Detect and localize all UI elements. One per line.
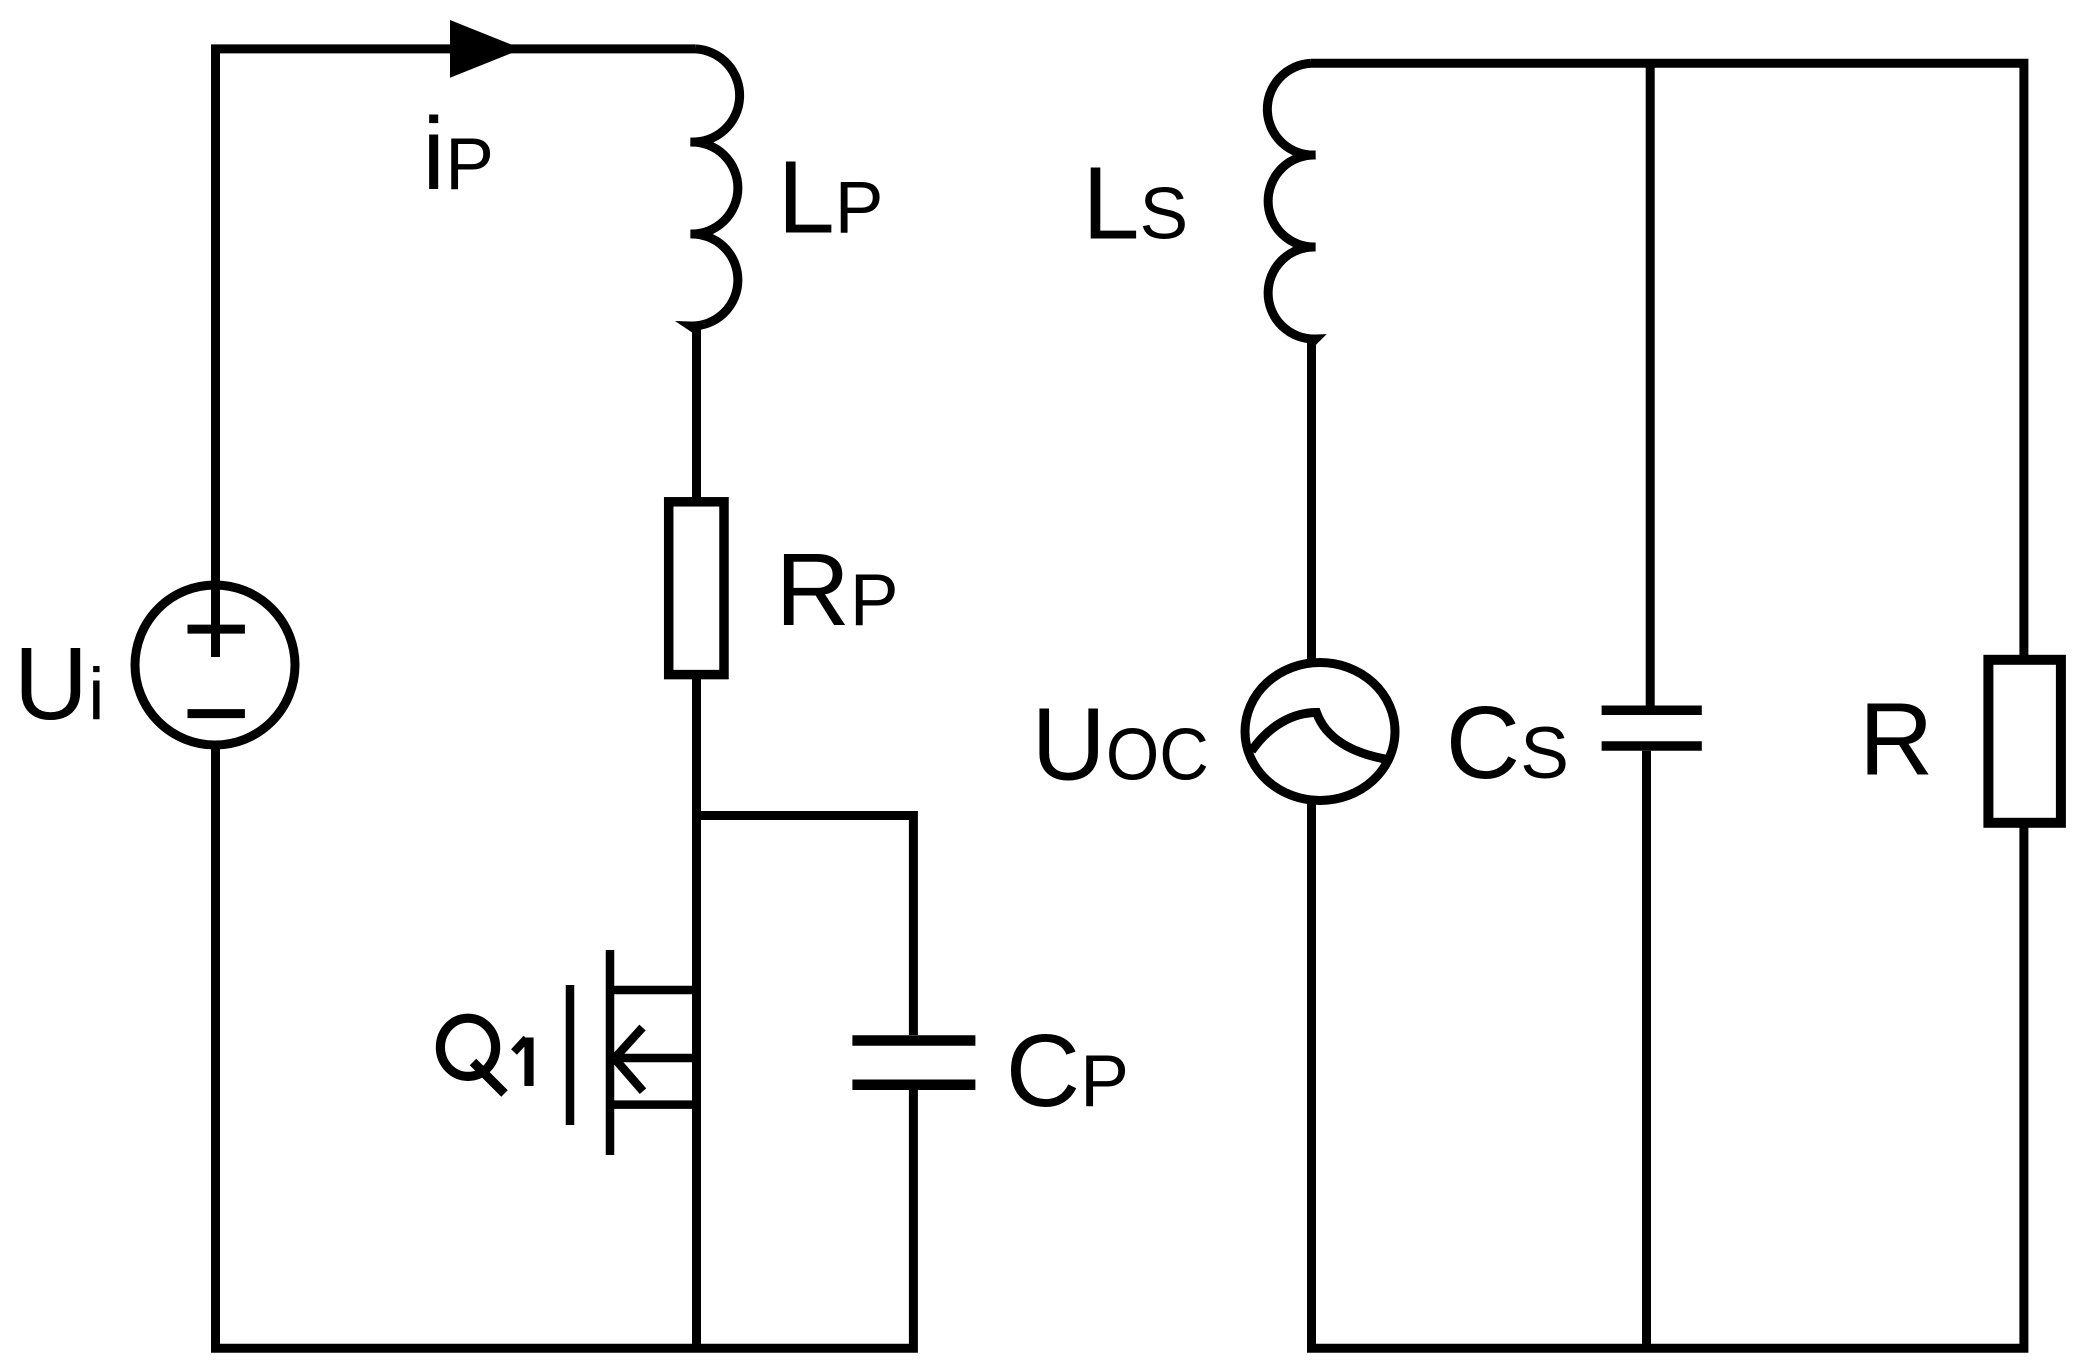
voltage source Ui — [135, 585, 295, 745]
svg-text:LS: LS — [1082, 146, 1188, 261]
label Q1 — [440, 1018, 529, 1093]
wire: CS branch lower — [1642, 751, 1651, 1349]
svg-text:iP: iP — [422, 96, 494, 211]
capacitor CP — [852, 1041, 975, 1085]
resistor RP — [669, 502, 724, 675]
svg-text:UOC: UOC — [1032, 687, 1209, 802]
svg-text:CS: CS — [1446, 685, 1569, 800]
resistor R — [1988, 660, 2060, 823]
svg-text:CP: CP — [1006, 1013, 1129, 1128]
inductor LS — [1267, 63, 1315, 663]
current arrow iP — [450, 20, 522, 78]
node: drain junction, wire to CP — [697, 816, 914, 1036]
svg-text:Ui: Ui — [14, 626, 105, 741]
wire: CS branch upper — [1646, 63, 1655, 705]
capacitor CS — [1602, 710, 1702, 746]
inductor LP — [691, 49, 740, 498]
svg-text:R: R — [1859, 682, 1933, 797]
transistor Q1 — [570, 950, 701, 1155]
source UOC — [1245, 663, 1395, 801]
wire: right loop top, R branch down — [1311, 63, 2024, 655]
svg-text:RP: RP — [776, 532, 899, 647]
wire: bottom-right return — [1312, 797, 2024, 1348]
wire: Ui positive terminal up and across top to LP — [216, 49, 696, 657]
wire: drain-source main vertical — [692, 816, 701, 1349]
wire: bottom-left return — [216, 745, 914, 1348]
svg-text:LP: LP — [778, 139, 884, 254]
wire: RP to drain node — [692, 679, 701, 816]
